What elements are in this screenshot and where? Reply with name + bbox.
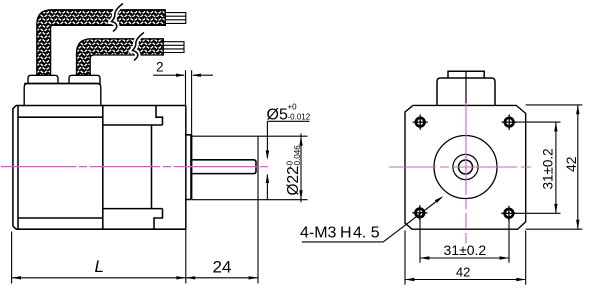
dia22 dimension line — [300, 134, 302, 203]
rear housing inner bottom line — [18, 217, 103, 219]
right 31 extension lines — [513, 122, 560, 213]
cable 2 break symbol — [133, 33, 145, 61]
svg-text:42: 42 — [563, 156, 579, 172]
flange square with chamfered corners — [405, 105, 526, 229]
shaft circle dia5 — [459, 160, 473, 174]
flange front face — [185, 106, 187, 230]
svg-text:Ø22: Ø22 — [285, 166, 302, 195]
housing divider vertical — [102, 106, 104, 230]
svg-text:H: H — [340, 225, 352, 242]
mounting hole BR — [501, 206, 516, 222]
dim 24 arrows — [186, 276, 195, 279]
shaft — [191, 160, 256, 174]
right 42 extension lines — [526, 105, 583, 229]
dia5 dimension vertical — [266, 121, 268, 158]
cable 2 stripped strands — [163, 42, 184, 53]
stator barrel top line — [103, 124, 163, 126]
pilot circle dia22 — [434, 136, 497, 199]
text right 42 rotated — [563, 156, 579, 172]
motor body top edge — [16, 105, 186, 107]
arrowheads left view — [12, 74, 303, 280]
rear cap inner vertical — [17, 106, 19, 230]
svg-text:31±0.2: 31±0.2 — [541, 148, 556, 189]
right 31 arrows — [554, 122, 557, 131]
dim 2: extension lines — [185, 70, 187, 106]
terminal block — [24, 84, 101, 107]
dim 24 line — [186, 277, 258, 279]
bearing boss circle — [453, 154, 478, 179]
mounting hole TR — [502, 115, 517, 130]
front cap top step — [156, 106, 163, 126]
motor body bottom edge — [16, 228, 186, 230]
stator barrel bottom line — [103, 208, 163, 210]
cable 1 break symbol — [112, 4, 124, 32]
svg-text:-0.046: -0.046 — [293, 145, 302, 168]
mounting hole TL — [413, 115, 428, 130]
right 31 dim line — [555, 122, 557, 213]
bottom 42 dim line — [405, 279, 526, 281]
cable 1 (upper braided lead) — [37, 10, 166, 76]
svg-text:-0.012: -0.012 — [288, 113, 311, 122]
svg-text:24: 24 — [213, 257, 232, 276]
cable 1 stripped strands — [165, 13, 186, 24]
bottom 42 arrows — [405, 278, 414, 281]
terminal block top edge — [24, 83, 101, 85]
leader 4-M3 — [302, 198, 442, 242]
svg-text:L: L — [95, 257, 104, 276]
mounting hole BL — [412, 205, 427, 220]
terminal cap seam — [465, 71, 467, 105]
dim L/24: extension lines — [11, 232, 13, 284]
svg-text:2: 2 — [156, 60, 164, 75]
svg-text:4-M3: 4-M3 — [300, 225, 337, 242]
right 42 dim line — [577, 105, 579, 229]
dim 2 arrows — [176, 74, 185, 77]
rear housing inner top line — [18, 116, 103, 118]
dia5 leader horizontal — [267, 120, 309, 122]
svg-text:4. 5: 4. 5 — [353, 225, 380, 242]
dia22 extension lines — [192, 136, 308, 200]
dim L line — [12, 277, 186, 279]
svg-text:42: 42 — [456, 264, 470, 279]
center line left view (magenta) — [1, 166, 309, 168]
text dia22 rotated — [285, 145, 302, 196]
texts left view — [95, 60, 311, 277]
svg-text:31±0.2: 31±0.2 — [444, 242, 487, 258]
leader arrow — [435, 196, 444, 203]
bottom 31 extension lines — [420, 220, 509, 263]
svg-text:+0: +0 — [288, 103, 298, 112]
arrowheads front view — [405, 105, 580, 281]
dia22 arrows — [299, 136, 302, 145]
right 42 arrows — [576, 105, 579, 114]
texts front view — [300, 148, 579, 279]
bottom 31 arrows — [420, 256, 429, 259]
front view center lines (magenta) — [389, 166, 538, 168]
stator barrel right edge — [151, 125, 153, 209]
pilot boss — [186, 135, 192, 200]
front cap bottom step — [154, 209, 163, 230]
bottom 31 dim line — [420, 257, 509, 259]
text right 31 rotated — [541, 148, 556, 189]
terminal cap top rib — [448, 71, 484, 78]
terminal cap front view — [437, 78, 495, 105]
dim L arrows — [12, 276, 21, 279]
pilot boss face — [190, 135, 192, 200]
dim 2: dimension lines — [153, 74, 184, 76]
dia5 arrows — [266, 150, 269, 159]
cable bushing 1 — [28, 75, 58, 83]
cable bushing 2 — [69, 75, 100, 83]
bottom 42 extension lines — [405, 231, 526, 285]
svg-text:Ø5: Ø5 — [267, 107, 288, 124]
cable 2 (lower braided lead) — [77, 39, 164, 76]
rear cap outer edge with chamfers — [13, 106, 16, 230]
